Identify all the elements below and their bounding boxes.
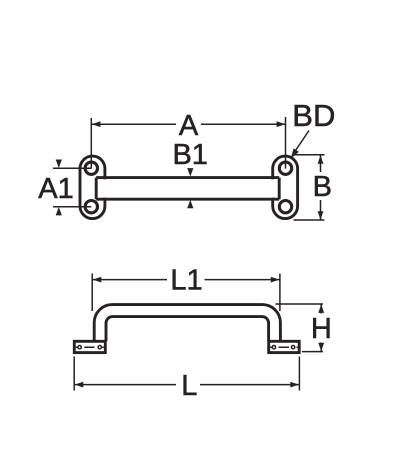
side view: right foot center line [270,346,298,348]
label L1 [170,265,202,297]
dimension H extension line top [276,303,324,305]
dimension L1 right arrow [271,277,280,283]
dimension B top arrow [318,155,324,164]
top view: right flange plate [273,156,298,219]
svg-text:H: H [311,313,332,345]
dimension B line [320,155,322,220]
side view: left foot plate [74,341,105,352]
dimension A right arrow [277,121,286,127]
dimension H line [320,304,322,352]
label A [179,110,199,142]
label A1 [38,173,73,205]
svg-text:A: A [179,110,199,142]
svg-text:A1: A1 [38,173,73,205]
dimension A1 extension line bottom [53,206,91,208]
dimension H top arrow [318,304,324,313]
dimension A extension line right [285,117,287,169]
dimension B bottom arrow [318,211,324,220]
svg-text:B: B [313,171,332,203]
side view: handle tube inner outline [106,317,269,342]
label L [181,370,197,402]
dimension A line [91,123,285,125]
svg-text:L: L [181,370,197,402]
side view: left foot center line [76,346,104,348]
top view: right flange edge cutout at bar [269,179,277,197]
dimension L1 extension line right [279,274,281,312]
label B [313,171,332,203]
dimension A1 top arrow [56,160,62,168]
dimension B1 top arrow [187,168,193,176]
top view: right flange bottom hole [279,201,291,213]
label BD [292,98,335,133]
dimension B extension line top [293,154,325,156]
dimension BD leader line [293,131,309,155]
dimension H extension line bottom [302,351,323,353]
dimension L left arrow [75,382,84,388]
dimension L1 extension line left [91,274,93,312]
dimension H bottom arrow [318,343,324,352]
side view: handle tube outer outline [94,305,280,342]
dimension B1 bottom arrow [187,200,193,208]
dimension B extension line bottom [294,219,325,221]
label H [311,313,332,345]
dimension A1 bottom arrow [56,207,62,215]
dimension L1 line [92,279,280,281]
top view: right flange top hole [279,162,291,174]
side view: right foot hole right [291,346,294,349]
svg-text:BD: BD [292,98,335,133]
side view: left foot hole right [98,346,101,349]
dimension A1 extension line top [53,167,91,169]
dimension L line [74,384,299,386]
top view: left flange plate [80,156,105,219]
side view: left foot hole left [78,346,81,349]
top view: left flange top hole [85,162,97,174]
dimension BD arrow [291,148,299,158]
dimension A left arrow [92,121,101,127]
top view: left flange bottom hole [85,201,97,213]
dimension A extension line left [90,118,92,169]
dimension L1 left arrow [93,277,102,283]
dimension L right arrow [290,382,299,388]
top view: connecting bar [96,178,279,200]
side view: right foot plate [269,341,300,352]
side view: right foot hole left [272,346,275,349]
top view: left flange edge cutout at bar [101,179,109,197]
label B1 [172,139,207,171]
svg-text:L1: L1 [170,265,202,297]
dimension L extension line left [73,357,75,391]
dimension L extension line right [298,357,300,391]
svg-text:B1: B1 [172,139,207,171]
